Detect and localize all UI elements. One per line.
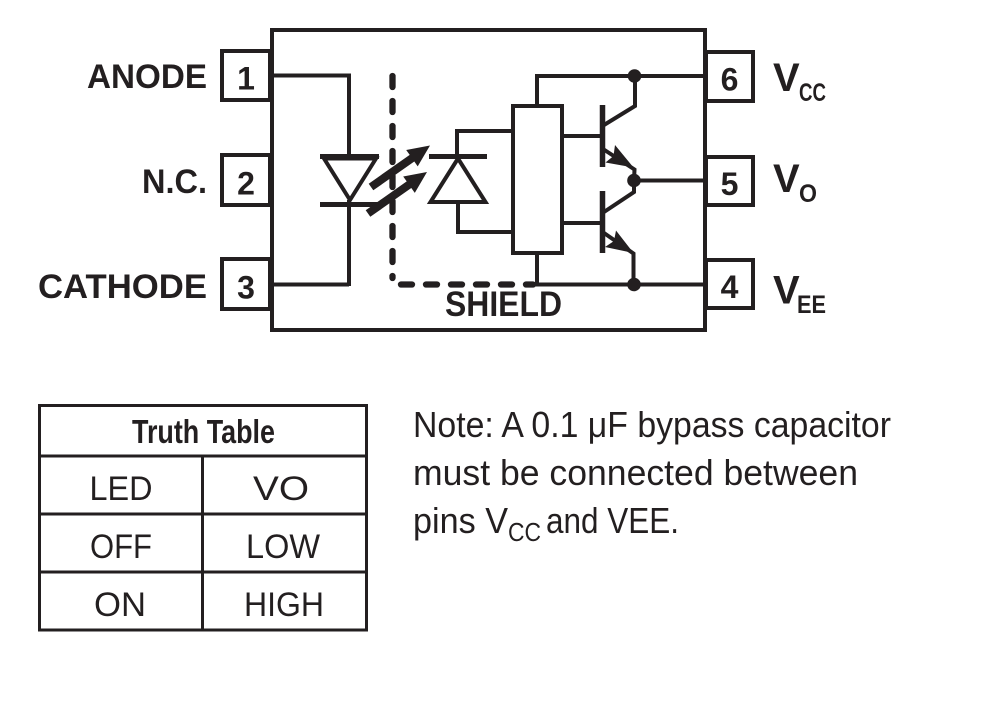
truth table cell OFF (90, 528, 152, 566)
svg-text:VO: VO (253, 470, 309, 508)
transistor Q2 emitter (604, 233, 634, 286)
transistor Q2 emitter arrow (605, 231, 634, 254)
wire Vo node to pin5 (634, 179, 705, 183)
svg-text:LOW: LOW (246, 528, 320, 566)
svg-text:HIGH: HIGH (244, 586, 324, 624)
photodiode bottom wire (458, 230, 515, 234)
light arrow lower (366, 172, 427, 217)
svg-text:OFF: OFF (90, 528, 152, 566)
svg-text:Note: A 0.1 μF bypass capacito: Note: A 0.1 μF bypass capacitor (413, 404, 891, 445)
svg-text:SHIELD: SHIELD (445, 285, 562, 324)
truth table cell LED (90, 470, 153, 508)
svg-text:LED: LED (90, 470, 153, 508)
pin 1 box (222, 51, 270, 100)
pin 2 number (237, 166, 255, 202)
CATHODE label (38, 268, 207, 306)
svg-text:4: 4 (721, 269, 739, 305)
shield dashed horizontal (401, 281, 533, 287)
LED D1 anode base line (320, 154, 379, 159)
wire amp top to Vcc rail (535, 74, 539, 108)
photodiode anode vertical (456, 202, 460, 235)
truth table column divider (201, 456, 204, 630)
truth table row divider 3 (38, 571, 368, 574)
shield dashed vertical (389, 76, 395, 278)
truth table cell LOW (246, 528, 320, 566)
transistor Q2 collector (604, 181, 634, 213)
amplifier block U1 (513, 106, 562, 253)
svg-text:V: V (773, 56, 800, 100)
Vcc top rail (535, 74, 705, 78)
pin 2 box (222, 155, 270, 205)
pin 5 number (721, 166, 739, 202)
truth table cell HIGH (244, 586, 324, 624)
photodiode cathode bar (429, 154, 487, 159)
svg-text:6: 6 (721, 62, 739, 98)
svg-text:3: 3 (237, 270, 255, 306)
truth table outer border (40, 406, 367, 631)
junction dot Vcc rail (628, 69, 642, 83)
note text line 1 (413, 404, 891, 445)
svg-text:V: V (773, 157, 800, 201)
truth table cell VO (253, 470, 309, 508)
svg-text:Truth Table: Truth Table (132, 413, 275, 450)
pin 4 box (706, 260, 753, 308)
pin 1 number (237, 61, 255, 97)
pin 4 number (721, 269, 739, 305)
Vo label (773, 157, 817, 208)
svg-text:must be connected between: must be connected between (413, 452, 858, 493)
Vcc label (773, 56, 826, 107)
light arrow upper (369, 146, 430, 191)
Vee bottom rail (535, 283, 705, 287)
photodiode triangle (431, 159, 486, 203)
LED D1 cathode bar (320, 202, 379, 207)
photodiode cathode vertical (455, 129, 459, 157)
transistor Q1 emitter (603, 149, 635, 181)
wire pin1 to LED anode (268, 74, 349, 78)
transistor Q2 base bar (600, 191, 606, 253)
svg-text:V: V (773, 269, 800, 313)
pin 6 number (721, 62, 739, 98)
transistor Q1 base bar (600, 105, 606, 167)
svg-text:2: 2 (237, 166, 255, 202)
ANODE label (87, 58, 207, 96)
Vee label (773, 269, 826, 320)
svg-text:CC: CC (799, 79, 826, 107)
svg-text:pins V: pins V (413, 500, 508, 541)
svg-text:CC: CC (508, 517, 541, 547)
svg-text:5: 5 (721, 166, 739, 202)
svg-text:ON: ON (94, 586, 146, 624)
wire LED anode vertical (347, 74, 351, 159)
note text line 2 (413, 452, 858, 493)
svg-text:and VEE.: and VEE. (546, 500, 679, 541)
transistor Q2 base wire (562, 221, 600, 225)
junction dot Vee rail (627, 278, 641, 292)
wire LED cathode vertical (347, 200, 351, 286)
note text line 3 (413, 500, 679, 547)
wire pin3 to LED cathode (268, 283, 349, 287)
pin 3 number (237, 270, 255, 306)
svg-text:ANODE: ANODE (87, 58, 207, 96)
package outline (272, 30, 705, 330)
wire amp bottom to Vee rail (535, 251, 539, 286)
transistor Q1 base wire (562, 134, 600, 138)
svg-text:O: O (799, 180, 817, 208)
truth table header divider (38, 455, 368, 458)
pin 5 box (706, 157, 753, 205)
svg-text:CATHODE: CATHODE (38, 268, 207, 306)
truth table row divider 2 (38, 513, 368, 516)
truth table title (132, 413, 275, 450)
transistor Q1 emitter arrow (606, 145, 634, 168)
junction dot Vo node (627, 174, 641, 188)
pin 6 box (706, 52, 753, 101)
LED D1 triangle (324, 159, 376, 201)
photodiode top wire (457, 129, 515, 133)
truth table cell ON (94, 586, 146, 624)
svg-text:EE: EE (797, 291, 826, 319)
transistor Q1 collector (604, 76, 635, 125)
svg-text:N.C.: N.C. (142, 163, 207, 201)
svg-text:1: 1 (237, 61, 255, 97)
SHIELD label (445, 285, 562, 324)
pin 3 box (222, 259, 270, 309)
N.C. label (142, 163, 207, 201)
